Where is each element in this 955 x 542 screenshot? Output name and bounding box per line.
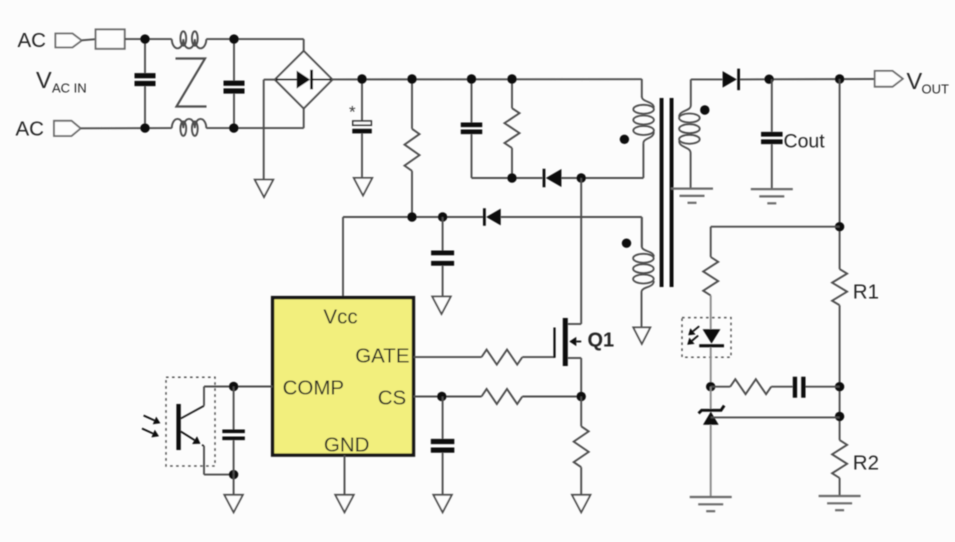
svg-text:OUT: OUT <box>922 82 950 97</box>
svg-text:*: * <box>349 103 356 122</box>
svg-text:V: V <box>36 67 52 93</box>
svg-text:V: V <box>907 68 923 94</box>
svg-text:AC IN: AC IN <box>52 81 87 96</box>
svg-text:GATE: GATE <box>355 345 409 368</box>
svg-text:CS: CS <box>378 387 406 410</box>
svg-text:Cout: Cout <box>784 131 826 153</box>
svg-text:AC: AC <box>16 118 45 141</box>
svg-text:R2: R2 <box>853 452 879 475</box>
svg-text:GND: GND <box>324 434 370 457</box>
svg-text:Vcc: Vcc <box>323 306 357 329</box>
svg-text:AC: AC <box>18 29 47 52</box>
svg-text:COMP: COMP <box>283 377 345 400</box>
svg-text:R1: R1 <box>853 281 879 304</box>
svg-text:Q1: Q1 <box>588 330 615 352</box>
